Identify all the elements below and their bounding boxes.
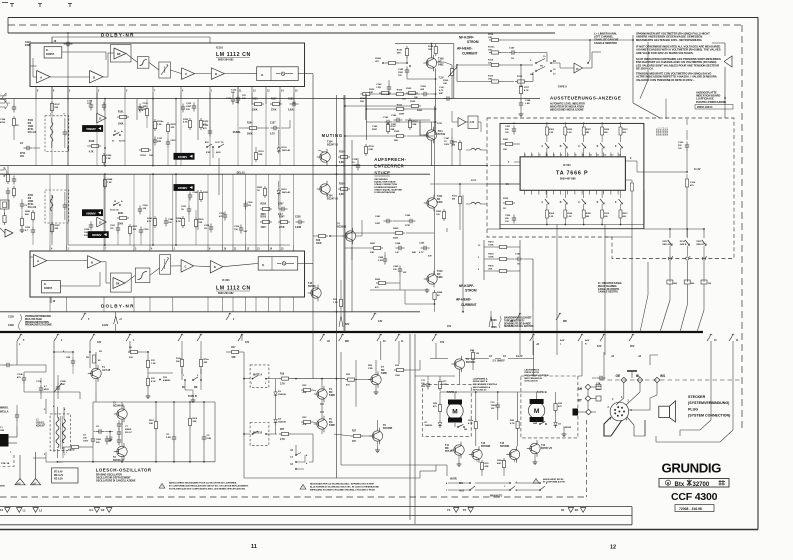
resistor R201 100K [117, 213, 129, 226]
osc right parts [149, 416, 212, 443]
resistor R152b upper [139, 106, 149, 118]
svg-text:STROM: STROM [465, 289, 477, 293]
svg-text:100: 100 [83, 438, 87, 440]
svg-text:SB: SB [464, 429, 467, 431]
wires upper dolby pins to bus [36, 93, 210, 99]
svg-text:47K: 47K [147, 220, 151, 223]
osc transistors T2 T3 [113, 402, 127, 463]
svg-text:VALGONO CON TENSIONE DI RETE D: VALGONO CON TENSIONE DI RETE DI 220V~. [636, 78, 695, 82]
svg-text:100P: 100P [186, 106, 192, 108]
op-amp A upper [37, 71, 51, 84]
svg-text:68K: 68K [412, 252, 416, 254]
svg-text:22N: 22N [157, 141, 161, 143]
svg-text:8: 8 [575, 155, 576, 157]
svg-text:06753-803.00: 06753-803.00 [473, 390, 487, 392]
svg-text:5: 5 [554, 155, 555, 157]
svg-text:4: 4 [182, 90, 184, 93]
svg-text:C137: C137 [270, 123, 276, 125]
fe me bottom wires [185, 380, 201, 403]
vertical bus mid 3 [351, 140, 353, 312]
svg-text:12: 12 [267, 91, 270, 93]
svg-text:R17: R17 [231, 347, 236, 349]
ground triangle 1 [15, 455, 25, 485]
svg-text:C4: C4 [20, 142, 24, 145]
svg-text:2,7K: 2,7K [280, 384, 285, 386]
svg-text:L1: L1 [23, 509, 27, 513]
svg-text:D: D [597, 146, 599, 148]
svg-text:CANALE SINISTRO: CANALE SINISTRO [594, 42, 617, 45]
svg-text:ME: ME [194, 387, 198, 389]
wire pair down mid [341, 352, 447, 465]
svg-text:220: 220 [505, 218, 509, 220]
svg-text:ET CONFORME AUX REGULATIONS VD: ET CONFORME AUX REGULATIONS VDE ET IEC. … [169, 484, 249, 487]
svg-text:(SYSTEM CONNECTION): (SYSTEM CONNECTION) [688, 413, 731, 417]
svg-text:470: 470 [690, 184, 694, 187]
label AUFSPRECH-ENTZERRER STUFE [374, 157, 406, 176]
svg-text:BC548C: BC548C [466, 361, 475, 364]
border frame top line [2, 3, 758, 34]
svg-text:C22B: C22B [60, 381, 66, 383]
svg-text:6: 6 [64, 114, 66, 116]
svg-text:C228: C228 [248, 202, 254, 204]
transistor T13 [469, 442, 491, 463]
IC upper pin stubs [36, 87, 298, 93]
svg-text:CURRENT: CURRENT [462, 52, 478, 56]
svg-text:56K: 56K [25, 214, 29, 216]
svg-text:C244: C244 [395, 242, 401, 245]
wire top rail t109 [395, 43, 454, 99]
svg-text:453: 453 [205, 141, 209, 144]
label NF-KOPF upper [457, 36, 479, 56]
svg-text:R159: R159 [369, 146, 375, 148]
svg-text:R265: R265 [393, 228, 399, 230]
switch hooks at 312 line [81, 313, 521, 323]
svg-text:CANALE DESTRO: CANALE DESTRO [598, 291, 618, 294]
svg-text:557-25: 557-25 [445, 450, 453, 453]
svg-text:4: 4 [612, 398, 614, 401]
svg-text:470: 470 [375, 60, 379, 63]
svg-text:6: 6 [53, 406, 55, 408]
resistor R169 mid [344, 131, 434, 142]
capacitor C147b [446, 228, 448, 232]
svg-text:R133: R133 [252, 99, 258, 101]
bus drop wires deck [356, 341, 365, 520]
svg-text:PLUG: PLUG [688, 407, 698, 411]
transistor T10 right of lower dolby [308, 282, 321, 301]
svg-text:470: 470 [558, 405, 562, 408]
svg-text:MECANISME D'ENTR.B: MECANISME D'ENTR.B [524, 374, 549, 377]
svg-text:G: G [261, 73, 264, 77]
svg-text:C238: C238 [295, 217, 301, 219]
svg-text:680: 680 [604, 216, 608, 218]
svg-text:R71: R71 [443, 381, 448, 383]
svg-text:R303: R303 [549, 129, 555, 131]
transformer L1 windings [56, 416, 65, 449]
svg-text:20K: 20K [149, 423, 153, 425]
svg-text:RIGHT CHANNEL: RIGHT CHANNEL [598, 285, 618, 288]
resistor R268 82 [433, 290, 443, 312]
mid rail pair [337, 95, 345, 478]
capacitor C230 [219, 212, 227, 221]
cap C143 row [366, 116, 442, 125]
ladder buses [500, 123, 644, 224]
svg-text:A/W: A/W [560, 339, 565, 342]
svg-text:G2: G2 [101, 508, 105, 512]
op-amp DK upper [111, 45, 132, 63]
svg-text:750: 750 [708, 283, 712, 285]
board separation line [0, 311, 420, 313]
svg-text:(SYSTEMVERBINDUNG): (SYSTEMVERBINDUNG) [688, 401, 730, 405]
capacitor C3 group [105, 436, 113, 445]
svg-text:18: 18 [290, 450, 293, 452]
svg-text:STROM: STROM [467, 40, 479, 44]
label LAUFWERK A [473, 378, 498, 392]
speaker symbol [659, 401, 676, 422]
svg-text:1,2K: 1,2K [151, 363, 156, 365]
svg-text:STECKER: STECKER [688, 395, 706, 399]
capacitor C233 right [181, 206, 191, 215]
svg-text:2: 2 [532, 155, 533, 157]
resistor row y94 [360, 89, 420, 104]
svg-text:C1: C1 [7, 103, 11, 105]
svg-text:!: ! [162, 485, 163, 488]
svg-text:OSCILLATORE DI CANCELLAZIONE: OSCILLATORE DI CANCELLAZIONE [96, 479, 136, 482]
svg-text:D4: D4 [278, 418, 282, 421]
ground deck B [562, 428, 567, 437]
svg-text:R35a: R35a [497, 460, 503, 462]
aufsprech bottom wires [370, 274, 435, 305]
svg-text:100V+: 100V+ [352, 165, 359, 167]
svg-text:R169: R169 [394, 131, 400, 133]
svg-text:10000: 10000 [491, 405, 498, 407]
op-amp meter driver right [712, 43, 732, 99]
svg-text:1500: 1500 [96, 439, 102, 441]
note voltages italian [636, 72, 717, 82]
svg-text:1,5N: 1,5N [376, 87, 381, 89]
svg-text:9: 9 [209, 249, 211, 251]
wire left vertical 1 [67, 33, 69, 99]
capacitor C140 47 [439, 86, 453, 101]
IC501 TA7666P box [520, 157, 625, 191]
svg-text:P101: P101 [28, 120, 34, 122]
svg-text:DEL.01: DEL.01 [237, 172, 246, 175]
svg-text:KN: KN [28, 123, 32, 125]
wire pins to row [210, 93, 294, 121]
label DOLBY-NR upper [101, 33, 135, 38]
capacitor C234 1N [204, 224, 213, 233]
svg-text:580: 580 [204, 362, 208, 364]
label IC101 LM 1112 CN [216, 46, 251, 62]
capacitor C128b pin11 [243, 201, 253, 210]
svg-text:10: 10 [478, 245, 481, 247]
svg-text:SURR.: SURR. [450, 479, 458, 481]
mid horizontal wire [276, 406, 661, 408]
svg-text:R: R [585, 344, 587, 346]
testpoint 180MV upper [174, 153, 195, 160]
label MUTING [322, 133, 343, 138]
bar connector right [627, 371, 637, 378]
capacitor C131 [288, 99, 299, 112]
svg-text:R11: R11 [151, 360, 156, 362]
svg-text:MTB: MTB [0, 486, 5, 488]
resistor R250 lower [257, 186, 267, 198]
wires deck to band [436, 310, 533, 476]
svg-text:!: ! [303, 486, 304, 489]
left bottom wires [33, 447, 94, 463]
dashed vertical right of deck [586, 420, 588, 497]
svg-text:R106: R106 [247, 123, 253, 125]
svg-text:88K: 88K [391, 129, 395, 131]
svg-text:10K: 10K [133, 229, 137, 231]
capacitor C122 100P [181, 103, 196, 113]
svg-text:SH: SH [578, 387, 583, 391]
svg-text:2: 2 [197, 375, 199, 377]
band connector F2 [463, 508, 473, 513]
svg-text:D512: D512 [663, 241, 669, 243]
svg-text:180MV: 180MV [178, 186, 188, 190]
svg-text:1N41-48: 1N41-48 [282, 191, 291, 194]
resistor R147b 56K [397, 46, 409, 58]
speaker sym mid left [0, 167, 7, 177]
resistor R26 47K [510, 419, 519, 431]
resistor R27b 27K [279, 429, 313, 441]
svg-text:R16A: R16A [375, 57, 381, 60]
capacitor C5 group [83, 432, 95, 452]
svg-text:DI REGISTRAZIONE: DI REGISTRAZIONE [374, 191, 395, 194]
svg-text:4,7K: 4,7K [89, 151, 94, 154]
band connector L1 [16, 508, 26, 513]
svg-text:G1: G1 [89, 508, 93, 512]
capacitor C145 1500 [398, 65, 411, 79]
svg-text:R231: R231 [133, 226, 139, 228]
svg-text:E6: E6 [553, 61, 557, 63]
svg-text:28002-108.04: 28002-108.04 [697, 106, 713, 109]
main supply bus thick [0, 331, 703, 333]
meter ladder bottom resistors [541, 190, 628, 225]
meter lamp resistors [667, 280, 712, 285]
resistor R147 820 [50, 101, 60, 113]
note voltages english [636, 45, 721, 55]
svg-text:R307: R307 [586, 129, 592, 131]
bus line upper mid [0, 98, 540, 100]
svg-text:R29: R29 [433, 403, 438, 405]
svg-text:3: 3 [135, 249, 137, 251]
svg-text:C126: C126 [231, 90, 237, 92]
left of T6 parts [415, 376, 455, 391]
svg-text:1N4148: 1N4148 [278, 393, 286, 396]
shaping box upper [137, 57, 149, 68]
svg-text:LM 1112 CN: LM 1112 CN [216, 52, 251, 58]
svg-text:R5: R5 [86, 357, 90, 359]
svg-text:C1: C1 [0, 427, 4, 429]
svg-text:25K: 25K [488, 269, 492, 271]
extra caps switch field [54, 351, 75, 374]
label LAUFWERK B [524, 369, 549, 383]
svg-text:680: 680 [623, 216, 627, 218]
svg-text:C136: C136 [226, 98, 232, 100]
wire vertical 463 [462, 195, 464, 313]
svg-text:D514: D514 [680, 240, 686, 243]
page number 11 [251, 544, 257, 550]
svg-text:470: 470 [346, 384, 350, 387]
resistor R133 130K [252, 99, 264, 112]
svg-text:500: 500 [129, 357, 133, 359]
osc mid wires [24, 390, 96, 414]
svg-text:2: 2 [68, 249, 70, 251]
svg-text:C302: C302 [505, 215, 511, 217]
svg-text:273P: 273P [405, 225, 411, 227]
label IC201 LM 1112 CN [216, 278, 251, 295]
svg-text:GE: GE [616, 374, 621, 378]
svg-text:2: 2 [608, 407, 610, 409]
diamond WS [654, 374, 665, 383]
svg-text:43K: 43K [497, 462, 501, 465]
svg-text:R6: R6 [129, 347, 133, 349]
svg-text:MESSWERTE GELTEN BEI 220V~ NET: MESSWERTE GELTEN BEI 220V~ NETZSPANNUNG. [636, 38, 703, 42]
wire WS chain [0, 0, 1, 1]
svg-text:3: 3 [126, 91, 128, 93]
resistor R262 100 mid [436, 209, 446, 221]
svg-text:580MV: 580MV [86, 211, 96, 215]
svg-text:C5: C5 [83, 435, 87, 437]
svg-text:1: 1 [66, 452, 68, 454]
svg-text:150K: 150K [488, 257, 494, 259]
svg-text:R573: R573 [488, 242, 494, 244]
svg-text:6,8K: 6,8K [369, 149, 374, 151]
svg-text:R = RECHTER KANAL: R = RECHTER KANAL [598, 282, 623, 285]
resistor R231 mid [128, 224, 138, 245]
svg-text:4,7K: 4,7K [468, 422, 473, 425]
svg-text:B: B [93, 75, 95, 79]
svg-text:C11: C11 [421, 380, 426, 382]
svg-text:4M: 4M [452, 198, 455, 201]
svg-text:72008 - 316.98: 72008 - 316.98 [679, 507, 702, 511]
svg-text:6,8K: 6,8K [339, 162, 344, 164]
svg-text:GRE B: GRE B [680, 244, 687, 246]
svg-text:A: A [541, 201, 543, 204]
diamond RT [578, 396, 601, 403]
wire deck top [430, 334, 539, 384]
left bottom box label [0, 455, 14, 467]
resistor R575 25K [488, 266, 520, 273]
svg-text:10K: 10K [443, 83, 447, 85]
vertical bus mid 2 [344, 95, 346, 332]
svg-text:4: 4 [672, 256, 674, 259]
svg-text:1N: 1N [511, 58, 514, 60]
svg-text:TAPE B: TAPE B [188, 395, 197, 398]
svg-text:KONST.: KONST. [44, 288, 53, 290]
svg-text:K1: K1 [561, 508, 565, 512]
svg-text:TAPE B: TAPE B [537, 390, 547, 394]
op-amp B lower [87, 256, 101, 269]
svg-text:WB: WB [563, 321, 567, 323]
svg-text:R268: R268 [437, 292, 443, 294]
svg-text:12: 12 [604, 155, 606, 157]
svg-text:10: 10 [444, 141, 447, 143]
svg-text:R23: R23 [302, 417, 307, 419]
hooks below bus left [17, 334, 349, 344]
svg-text:R208: R208 [491, 327, 497, 329]
resistor R5 top [86, 355, 101, 363]
op-amp 02 lower [97, 217, 107, 227]
wire dolby upper 4 [126, 54, 182, 74]
resistor R301 15K [500, 139, 520, 151]
svg-text:R108: R108 [491, 320, 497, 322]
bus line mid B [0, 173, 430, 175]
svg-text:R116: R116 [488, 76, 494, 78]
capacitor C236 150 [234, 225, 248, 234]
svg-text:7: 7 [568, 155, 569, 157]
svg-text:TAPE SENSITIVITY: TAPE SENSITIVITY [504, 319, 525, 322]
hook 12V 30V [597, 334, 635, 348]
svg-text:L: L [560, 344, 562, 346]
svg-text:R20: R20 [346, 374, 351, 376]
svg-text:IC 501: IC 501 [563, 163, 571, 167]
svg-text:C234: C234 [204, 224, 210, 227]
svg-text:PREMAGNETISATION: PREMAGNETISATION [25, 321, 49, 324]
svg-text:1500: 1500 [398, 72, 404, 74]
svg-text:100: 100 [110, 228, 114, 230]
svg-text:R148: R148 [89, 140, 95, 143]
label channel legend right [598, 282, 623, 294]
svg-text:RED RT: RED RT [697, 244, 705, 246]
svg-text:EQUAL IZER STAGE: EQUAL IZER STAGE [374, 181, 396, 184]
resistor R115b 120 [456, 60, 533, 67]
svg-text:R171: R171 [452, 196, 458, 198]
wires above DIN [616, 355, 658, 436]
transistor T104 [317, 141, 339, 166]
svg-text:BC547-15: BC547-15 [327, 144, 339, 147]
resistor R153 470 [199, 118, 209, 130]
svg-text:BC548B: BC548B [383, 427, 392, 430]
capacitor C126 50V [231, 87, 246, 104]
wire dolby upper 5 [195, 73, 257, 75]
svg-text:+B: +B [536, 344, 539, 346]
transistor T111 [423, 127, 445, 143]
capacitor C1A right [592, 376, 606, 391]
motor A [447, 400, 463, 423]
warning mark small [533, 478, 566, 484]
svg-text:R149: R149 [106, 154, 112, 157]
left resistor stack [0, 213, 13, 237]
svg-text:9: 9 [630, 158, 632, 160]
svg-text:R258: R258 [261, 204, 267, 206]
label R12 KABEL [148, 373, 173, 382]
transistor T211 [424, 195, 443, 211]
svg-text:7: 7 [446, 490, 448, 492]
svg-text:150P: 150P [60, 384, 66, 386]
capacitor C229 mid [139, 227, 150, 246]
svg-text:D6V: D6V [421, 386, 426, 388]
capacitor C220 mid [138, 205, 149, 215]
op-amp head amp [551, 52, 601, 73]
svg-text:10V: 10V [505, 132, 509, 134]
svg-text:1: 1 [504, 486, 506, 488]
svg-text:C: C [185, 72, 187, 76]
svg-text:BC548B: BC548B [500, 445, 509, 448]
svg-text:TA 7666 P: TA 7666 P [556, 171, 588, 177]
wire dolby upper 1 [52, 37, 57, 43]
svg-text:R8.2: R8.2 [149, 420, 154, 422]
svg-text:R164: R164 [397, 89, 403, 92]
svg-text:100K: 100K [316, 243, 322, 245]
transistor T15 [500, 442, 520, 463]
junction dots upper field [67, 98, 177, 167]
svg-text:470: 470 [203, 127, 207, 130]
nf head bus top wire [590, 35, 660, 118]
svg-text:100: 100 [476, 353, 480, 355]
svg-text:R27: R27 [352, 431, 357, 433]
